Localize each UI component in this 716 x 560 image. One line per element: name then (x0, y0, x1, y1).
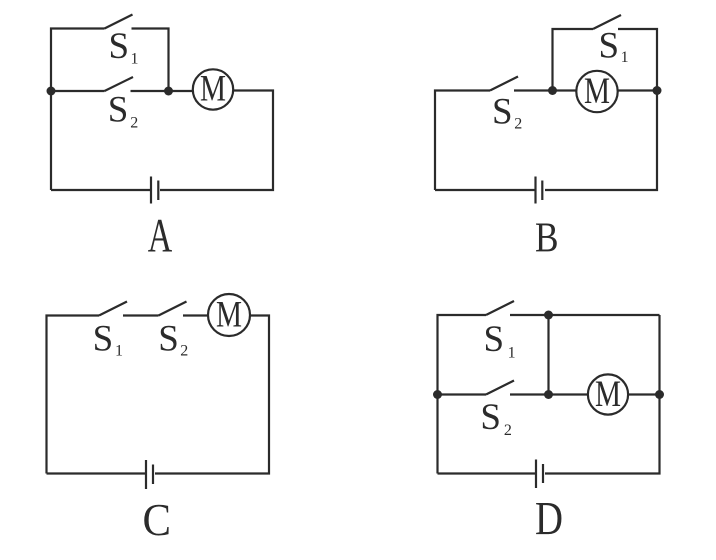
wire A main segment from S2 to motor (131, 90, 194, 92)
motor M (circuit A) (193, 69, 233, 110)
node A-right junction (164, 87, 173, 96)
label S2 (circuit C) (158, 319, 188, 360)
wire D middle segment from S2 to motor (510, 393, 588, 395)
wire D middle vertical between top and middle wires (547, 315, 549, 395)
node B-left junction (548, 86, 557, 95)
switch S1 (circuit C) blade (99, 302, 127, 316)
svg-text:M: M (216, 294, 242, 335)
svg-text:M: M (595, 374, 621, 415)
node D-middle-center junction (544, 390, 553, 399)
svg-text:S: S (480, 397, 501, 438)
wire B from motor to right node (617, 89, 657, 91)
wire A top-right segment and branch vertical down to node (132, 29, 169, 92)
svg-text:S: S (108, 90, 129, 131)
label S1 (circuit A) (109, 26, 139, 68)
svg-text:S: S (599, 26, 620, 67)
battery (circuit D) (536, 460, 543, 489)
wire D middle left segment to S2 contact (438, 393, 487, 395)
label S1 (circuit B) (599, 26, 629, 67)
svg-text:S: S (109, 26, 130, 67)
svg-text:2: 2 (180, 343, 188, 360)
switch S1 (circuit A) blade (105, 15, 133, 29)
svg-text:D: D (535, 493, 563, 546)
node A-left junction (47, 87, 56, 96)
svg-text:S: S (158, 319, 179, 360)
wire B top-right segment and right vertical (545, 29, 657, 190)
switch S2 (circuit C) blade (159, 302, 187, 316)
svg-text:S: S (484, 319, 505, 360)
svg-text:M: M (584, 71, 610, 112)
wire C from motor to right side down (155, 316, 269, 474)
motor M (circuit B) (576, 71, 617, 112)
wire B bottom-left segment (435, 189, 535, 191)
label C (142, 494, 171, 545)
node B-right junction (653, 86, 662, 95)
switch S2 (circuit B) blade (490, 77, 518, 91)
node D-middle-left junction (433, 390, 442, 399)
wire C segment from S2 to motor (183, 314, 208, 316)
wire D right vertical (545, 315, 660, 474)
wire B branch vertical up and top segment to S1 contact (553, 29, 594, 91)
svg-text:1: 1 (115, 343, 123, 360)
label S2 (circuit D) (480, 397, 512, 439)
node D-top junction (544, 311, 553, 320)
svg-text:A: A (148, 209, 173, 262)
battery (circuit C) (146, 460, 153, 489)
wire B main segment from S2 to motor (514, 89, 577, 91)
svg-text:1: 1 (508, 344, 516, 361)
svg-text:2: 2 (514, 116, 522, 133)
label S1 (circuit D) (484, 319, 516, 361)
label B (535, 215, 559, 261)
wire A from motor to right side down (160, 91, 273, 191)
wire B left vertical and main segment to S2 contact (435, 91, 490, 191)
switch S1 (circuit D) blade (486, 301, 514, 315)
switch S2 (circuit A) blade (105, 77, 134, 91)
motor M (circuit D) (588, 374, 628, 415)
svg-text:M: M (200, 69, 226, 110)
switch S2 (circuit D) blade (486, 381, 514, 395)
wire A bottom-left segment (51, 189, 150, 191)
wire D left vertical and top segment to S1 contact (438, 315, 487, 474)
svg-text:S: S (93, 318, 114, 359)
switch S1 (circuit B) blade (593, 15, 621, 29)
node D-middle-right junction (655, 390, 664, 399)
wire A left-vertical and top segment to S1 contact (51, 29, 105, 191)
svg-text:1: 1 (131, 51, 139, 68)
label S1 (circuit C) (93, 318, 123, 359)
wire D top segment from S1 to right corner (510, 314, 660, 316)
svg-text:2: 2 (130, 115, 138, 132)
svg-text:B: B (535, 215, 559, 261)
wire A main left segment to S2 contact (51, 90, 105, 92)
motor M (circuit C) (208, 294, 250, 336)
wire D bottom-left segment (438, 472, 536, 474)
battery (circuit B) (536, 177, 543, 204)
wire C bottom-left segment (47, 472, 146, 474)
label S2 (circuit A) (108, 90, 139, 132)
label A (148, 209, 173, 262)
wire C left vertical and top segment to S1 contact (47, 316, 100, 474)
battery (circuit A) (151, 177, 158, 204)
svg-text:1: 1 (621, 49, 629, 66)
svg-text:C: C (142, 494, 171, 545)
svg-text:2: 2 (504, 422, 512, 439)
label S2 (circuit B) (492, 92, 522, 133)
svg-text:S: S (492, 92, 513, 133)
wire D from motor to right vertical (628, 393, 660, 395)
wire C segment between switches (123, 314, 159, 316)
label D (535, 493, 563, 546)
